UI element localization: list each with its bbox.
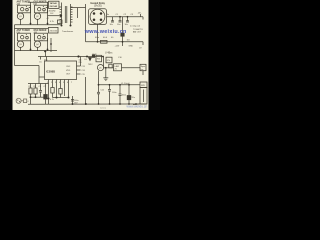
- svg-text:47k: 47k: [107, 60, 110, 62]
- svg-text:Heated Relay: Heated Relay: [91, 2, 106, 5]
- svg-text:FM: FM: [34, 4, 37, 6]
- svg-text:Q5: Q5: [99, 68, 102, 70]
- svg-text:+12V: +12V: [115, 45, 120, 47]
- svg-text:Transformer: Transformer: [62, 30, 74, 33]
- svg-text:4.7k: 4.7k: [50, 99, 54, 101]
- svg-text:TA7640: TA7640: [50, 2, 58, 5]
- svg-text:470u: 470u: [131, 97, 135, 99]
- svg-text:6: 6: [67, 82, 68, 84]
- svg-text:4x: 4x: [107, 14, 109, 16]
- svg-text:4.7k: 4.7k: [50, 21, 54, 23]
- svg-text:100n: 100n: [112, 92, 116, 94]
- svg-text:47u: 47u: [44, 60, 47, 62]
- svg-text:TO AM TU: TO AM TU: [133, 28, 143, 31]
- svg-text:C15: C15: [82, 74, 85, 76]
- svg-text:10n: 10n: [117, 24, 120, 26]
- svg-text:to relay coil: to relay coil: [130, 25, 141, 28]
- svg-text:10n: 10n: [125, 24, 128, 26]
- svg-text:www.weixiu.cn: www.weixiu.cn: [127, 105, 148, 109]
- svg-text:RG: RG: [97, 59, 100, 61]
- svg-text:100n: 100n: [122, 95, 126, 97]
- svg-text:AM: AM: [17, 3, 21, 6]
- svg-text:U 4Bxx: U 4Bxx: [105, 53, 113, 55]
- svg-text:455kHz: 455kHz: [49, 10, 56, 12]
- svg-text:7: 7: [71, 82, 72, 84]
- svg-text:FM: FM: [17, 33, 20, 35]
- svg-text:AM: AM: [34, 32, 38, 35]
- svg-text:IC508B: IC508B: [46, 69, 55, 73]
- svg-text:2SC945: 2SC945: [50, 5, 58, 8]
- svg-text:(5A/2D): (5A/2D): [94, 5, 102, 8]
- svg-text:C13: C13: [82, 66, 85, 68]
- svg-text:10n: 10n: [110, 24, 113, 26]
- svg-text:2: 2: [51, 82, 52, 84]
- svg-text:SPK: SPK: [141, 85, 146, 87]
- svg-text:2SC945: 2SC945: [50, 30, 58, 32]
- svg-text:1: 1: [47, 82, 48, 84]
- svg-text:VDD: VDD: [66, 70, 71, 72]
- svg-text:J1: J1: [27, 101, 29, 103]
- svg-text:3: 3: [55, 82, 56, 84]
- svg-text:weixiu: weixiu: [100, 107, 107, 109]
- svg-text:5: 5: [63, 82, 64, 84]
- svg-text:L1 10uH: L1 10uH: [121, 83, 130, 85]
- svg-text:ker: ker: [141, 68, 144, 71]
- svg-text:100u: 100u: [74, 100, 78, 102]
- svg-text:GND: GND: [129, 45, 134, 47]
- svg-text:C14: C14: [82, 70, 85, 72]
- svg-text:www.weixiu.cn: www.weixiu.cn: [84, 29, 127, 35]
- svg-text:10n: 10n: [127, 40, 130, 42]
- svg-text:4: 4: [59, 82, 60, 84]
- svg-text:AM OUT: AM OUT: [133, 30, 142, 33]
- svg-text:OSC: OSC: [66, 66, 71, 68]
